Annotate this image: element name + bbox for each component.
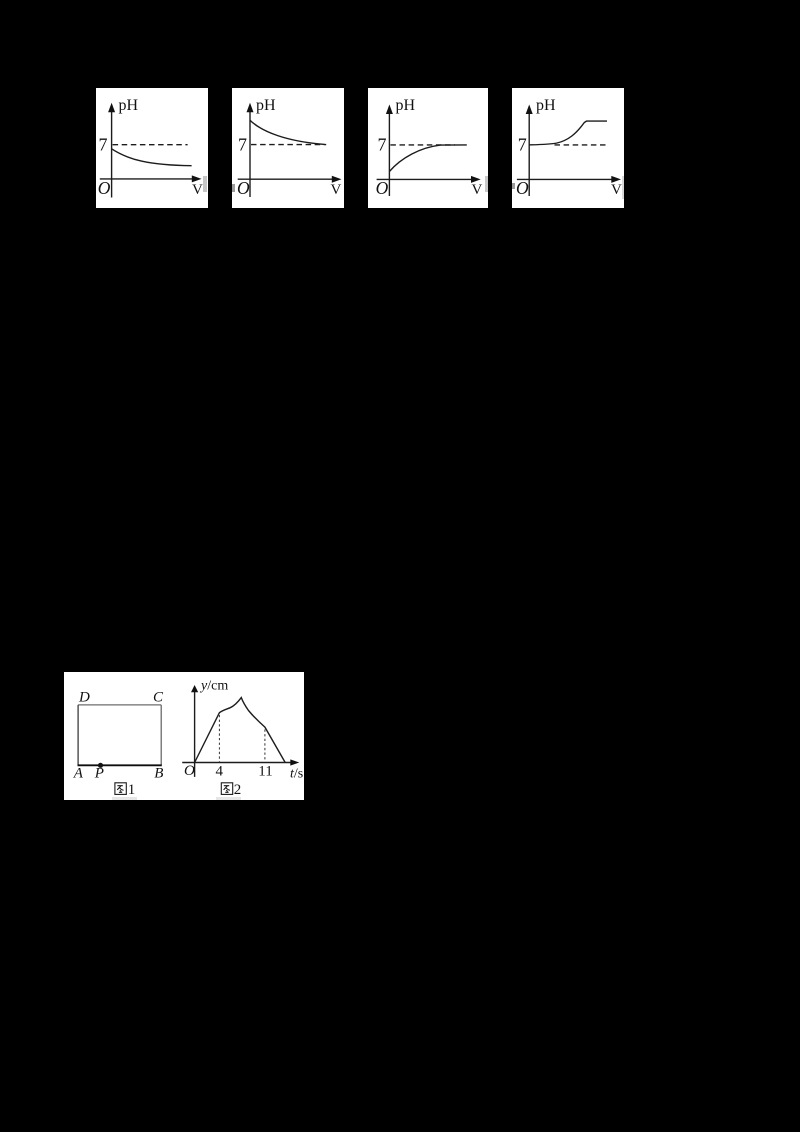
panel: pH chart B (232, 88, 344, 209)
y-axis (388, 113, 390, 196)
panel: pH chart D (512, 88, 625, 209)
curve (194, 697, 285, 762)
svg-text:B: B (154, 765, 163, 781)
x-axis (517, 178, 613, 180)
svg-text:V: V (331, 182, 342, 198)
svg-text:O: O (237, 177, 250, 197)
x-axis (377, 178, 472, 180)
svg-text:P: P (93, 765, 103, 781)
dashed line at 7 (390, 143, 455, 145)
svg-text:C: C (153, 689, 164, 705)
svg-text:V: V (611, 182, 622, 198)
svg-text:pH: pH (536, 97, 556, 114)
svg-text:O: O (516, 177, 529, 197)
y-axis (528, 113, 530, 196)
svg-text:pH: pH (396, 97, 416, 114)
svg-text:7: 7 (378, 134, 387, 154)
curve: rises from below to 7 then flat (389, 144, 466, 171)
x-axis (238, 178, 333, 180)
svg-text:7: 7 (517, 134, 526, 154)
svg-text:V: V (192, 182, 203, 198)
svg-text:V: V (472, 182, 483, 198)
svg-text:O: O (98, 177, 111, 197)
bottom edge AB darker (77, 764, 161, 766)
svg-text:t/s: t/s (290, 766, 303, 781)
y-axis (249, 111, 251, 197)
svg-text:2: 2 (233, 782, 241, 798)
jpeg artifact gray marks (203, 176, 208, 192)
caption 图2 (221, 782, 232, 794)
svg-text:O: O (184, 763, 195, 779)
dashed line at 7 (113, 143, 188, 145)
curve: starts high, decays to 7 (250, 120, 325, 144)
caption 图1 (114, 782, 125, 794)
graph y-axis (193, 692, 195, 777)
dashed line at 7 (251, 143, 326, 145)
svg-text:7: 7 (99, 134, 108, 154)
dashed vline t=4 (218, 715, 220, 762)
panel: pH chart A (96, 88, 208, 209)
y-axis (111, 111, 113, 198)
rectangle ABCD (78, 703, 161, 705)
svg-text:4: 4 (215, 763, 223, 779)
svg-text:pH: pH (119, 97, 139, 114)
curve: flat at 7 then rises to plateau (529, 121, 607, 145)
svg-text:O: O (376, 177, 389, 197)
svg-text:A: A (72, 765, 83, 781)
x-axis (100, 177, 193, 179)
dashed line at 7 (554, 143, 607, 145)
graph x-axis (182, 761, 291, 763)
point P (97, 762, 102, 767)
svg-text:11: 11 (258, 763, 272, 779)
panel: pH chart C (368, 88, 488, 209)
panel: figure 1 and figure 2 (64, 672, 305, 800)
svg-text:pH: pH (256, 97, 276, 114)
dashed vline t=11 (263, 729, 265, 761)
svg-text:7: 7 (238, 134, 247, 154)
svg-text:1: 1 (127, 782, 135, 798)
svg-text:D: D (78, 689, 90, 705)
curve: starts below 7, decays (112, 148, 192, 165)
svg-text:y/cm: y/cm (199, 678, 228, 693)
